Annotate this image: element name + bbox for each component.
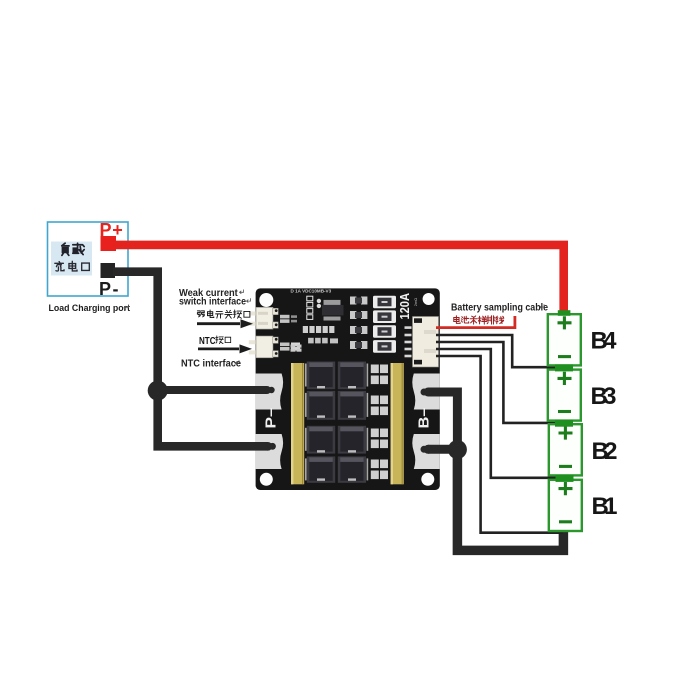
sampling wire red B4+ xyxy=(436,316,515,328)
svg-text:NTC: NTC xyxy=(199,335,216,347)
connector J2 NTC xyxy=(249,336,278,358)
connector J1 weak-current switch xyxy=(249,307,278,329)
battery B4 xyxy=(548,310,581,365)
mounting hole top-right xyxy=(423,293,435,305)
node B2/B1 cap xyxy=(556,475,574,482)
svg-text:B4: B4 xyxy=(591,328,618,355)
arrow to NTC connector xyxy=(198,347,239,350)
BMS board U1 xyxy=(249,288,440,490)
highlight behind chinese xyxy=(51,242,92,276)
label 弱电开关接口 xyxy=(197,310,250,318)
wire P+ thick red xyxy=(114,245,564,312)
sense resistor group 2 xyxy=(371,396,388,416)
junction node right xyxy=(448,440,467,459)
B3 minus sign xyxy=(558,410,571,413)
node B4/B3 cap xyxy=(555,364,573,371)
svg-text:switch interface: switch interface xyxy=(179,297,246,308)
pads beside J2 xyxy=(280,343,290,347)
B2 plus sign xyxy=(559,426,573,439)
sense resistor group 4 xyxy=(371,460,388,480)
svg-text:2mΩ: 2mΩ xyxy=(413,298,418,307)
battery B2 xyxy=(549,424,582,475)
round test pads xyxy=(317,299,321,303)
sense resistor group 3 xyxy=(371,429,388,449)
svg-text:P-: P- xyxy=(99,279,120,299)
return mark after Weak current xyxy=(240,290,244,294)
mounting hole bottom-left xyxy=(260,473,273,486)
wire B- to B1 minus xyxy=(457,450,563,551)
SMD row B xyxy=(308,338,338,344)
svg-text:Load Charging port: Load Charging port xyxy=(49,303,131,314)
B3 plus sign xyxy=(558,372,572,385)
arrow to switch connector xyxy=(197,322,240,325)
node B3/B2 cap xyxy=(555,420,573,427)
svg-text:P+: P+ xyxy=(100,220,124,240)
fuse F2 xyxy=(373,310,396,323)
label 负载 xyxy=(62,243,84,255)
balance connector J3 xyxy=(413,317,439,368)
solder pad right B- upper xyxy=(412,374,440,410)
wire B- upper right xyxy=(428,392,457,450)
balance pin silk labels xyxy=(405,326,412,357)
svg-text:120A: 120A xyxy=(397,293,412,320)
solder pad right B- lower xyxy=(412,434,440,469)
B1 plus sign xyxy=(559,482,573,495)
MOSFET bank xyxy=(307,362,366,483)
return mark after NTC interface xyxy=(235,360,239,364)
sampling wire 1 to B4/B3 node xyxy=(436,335,555,367)
mounting hole bottom-right xyxy=(421,473,434,486)
solder pad left P- upper xyxy=(256,374,284,410)
B4 minus sign xyxy=(558,355,571,358)
MOSFET pin dots xyxy=(305,364,368,481)
return mark after cable xyxy=(540,304,544,308)
IC U2 with pin rows xyxy=(324,300,341,305)
sampling wire 3 to B2/B1 node xyxy=(436,349,556,478)
B1 minus sign xyxy=(559,520,572,523)
pad column IC area xyxy=(307,296,313,319)
wire B- lower right xyxy=(428,445,457,454)
return mark after port xyxy=(124,305,129,310)
fuse F3 xyxy=(373,325,396,338)
B4 plus sign xyxy=(558,316,572,329)
label 充电口 xyxy=(55,261,89,271)
solder pad left P- lower xyxy=(256,434,284,469)
terminal P- black pad xyxy=(101,263,116,278)
svg-text:B–: B– xyxy=(416,408,433,429)
sense resistor group 1 xyxy=(371,365,388,385)
B4 plus cap xyxy=(558,310,571,316)
small pads bottom-left of top area xyxy=(291,345,302,352)
gold bus bar left xyxy=(291,363,304,484)
wire P- thick black xyxy=(113,272,268,447)
sampling wire 2 to B3/B2 node xyxy=(436,342,555,423)
board PCB body xyxy=(256,288,440,490)
fuse F1 xyxy=(373,296,396,309)
svg-text:NTC interface: NTC interface xyxy=(181,358,242,369)
svg-text:B2: B2 xyxy=(592,438,618,465)
svg-text:Battery sampling cable: Battery sampling cable xyxy=(451,302,548,313)
SMD row A xyxy=(303,326,335,333)
SMD pair column mid xyxy=(350,297,367,350)
svg-text:P–: P– xyxy=(263,408,280,429)
svg-text:B3: B3 xyxy=(591,383,617,410)
wire P- branch to upper pad xyxy=(158,386,267,394)
mounting hole top-left xyxy=(259,293,273,307)
pads beside J1 xyxy=(280,315,290,319)
battery B3 xyxy=(548,370,581,421)
battery B1 xyxy=(549,480,582,531)
load/charger box xyxy=(48,222,129,296)
label 电池采样排线 xyxy=(454,316,504,324)
B2 minus sign xyxy=(559,465,572,468)
junction node left xyxy=(148,381,168,401)
fuse F4 xyxy=(373,340,396,353)
sampling wire 4 to B1 minus xyxy=(436,356,563,533)
terminal P+ red pad xyxy=(101,236,117,251)
return mark after switch interface xyxy=(247,298,251,302)
svg-text:D 1A VDC10MB-V3: D 1A VDC10MB-V3 xyxy=(291,289,332,294)
svg-text:B1: B1 xyxy=(592,493,618,520)
gold bus bar right xyxy=(391,363,404,484)
